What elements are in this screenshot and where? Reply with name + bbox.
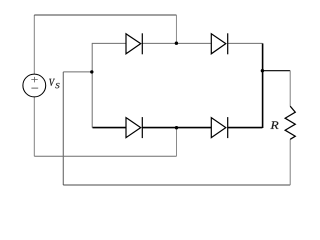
wire right column (thick) xyxy=(262,43,264,128)
resistor R xyxy=(285,106,295,139)
node B junction dot xyxy=(261,69,264,72)
diode D1 xyxy=(126,33,142,54)
diode D4 xyxy=(211,117,227,138)
wire bottom row between D3 and D4 (thick) xyxy=(142,127,211,129)
wire riser to node D xyxy=(176,128,178,157)
wire resistor bottom lead xyxy=(289,139,291,185)
diode D2 xyxy=(211,33,227,54)
node C junction dot xyxy=(175,42,178,45)
wire top row D2 to right column xyxy=(228,42,263,44)
wire node A to left rail xyxy=(63,71,92,73)
node D junction dot xyxy=(175,126,178,129)
node A junction dot xyxy=(90,70,93,73)
wire top horizontal run xyxy=(34,14,176,16)
wire top lead of source VS up xyxy=(33,15,35,74)
label R xyxy=(270,121,278,128)
wire left rail down xyxy=(62,72,64,185)
voltage source VS xyxy=(23,74,46,97)
wire bottom row D4 to right column (thick) xyxy=(228,127,263,129)
wire source VS bottom lead xyxy=(33,97,35,156)
wire bottom row left segment (thick) xyxy=(93,127,127,129)
label VS xyxy=(49,79,59,88)
wire resistor top lead xyxy=(289,71,291,107)
diode D3 xyxy=(126,117,142,138)
wire drop from top run to node C xyxy=(175,15,177,43)
wire top row between D1 and D2 xyxy=(142,42,211,44)
wire node B to resistor top xyxy=(262,70,290,72)
wire left column and top row first segment xyxy=(92,43,126,127)
wire bottom return run to node D xyxy=(34,155,176,157)
wire bottom run xyxy=(63,184,290,186)
